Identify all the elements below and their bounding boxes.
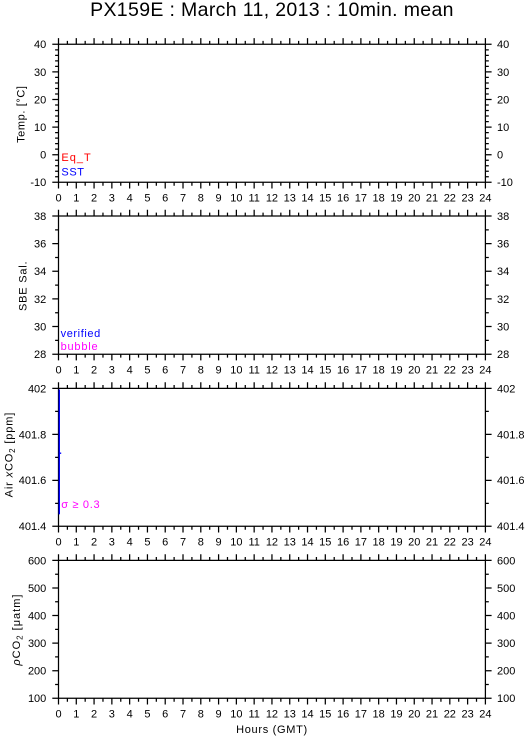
- svg-text:401.4: 401.4: [19, 521, 47, 533]
- svg-text:bubble: bubble: [61, 341, 99, 353]
- svg-text:401.8: 401.8: [19, 429, 47, 441]
- svg-text:11: 11: [248, 537, 259, 549]
- svg-text:28: 28: [497, 349, 509, 361]
- svg-text:2: 2: [91, 537, 97, 549]
- svg-text:10: 10: [230, 709, 242, 721]
- svg-text:5: 5: [144, 365, 150, 377]
- svg-text:36: 36: [34, 239, 46, 251]
- svg-text:8: 8: [198, 709, 204, 721]
- svg-text:11: 11: [248, 709, 259, 721]
- svg-text:36: 36: [497, 239, 509, 251]
- svg-text:19: 19: [390, 193, 402, 205]
- svg-text:6: 6: [162, 537, 168, 549]
- svg-text:18: 18: [373, 537, 385, 549]
- svg-text:19: 19: [390, 537, 402, 549]
- svg-text:21: 21: [426, 709, 438, 721]
- svg-text:Air xCO2 [ppm]: Air xCO2 [ppm]: [3, 412, 17, 497]
- svg-text:100: 100: [28, 693, 46, 705]
- svg-text:6: 6: [162, 365, 168, 377]
- svg-text:Eq_T: Eq_T: [61, 152, 91, 164]
- svg-text:3: 3: [109, 709, 115, 721]
- svg-text:7: 7: [180, 709, 186, 721]
- svg-text:23: 23: [461, 537, 473, 549]
- svg-text:300: 300: [497, 638, 515, 650]
- svg-text:20: 20: [408, 365, 420, 377]
- svg-text:7: 7: [180, 537, 186, 549]
- svg-text:7: 7: [180, 365, 186, 377]
- svg-text:12: 12: [266, 365, 278, 377]
- svg-text:7: 7: [180, 193, 186, 205]
- svg-text:401.8: 401.8: [497, 429, 525, 441]
- svg-text:24: 24: [479, 709, 491, 721]
- svg-text:10: 10: [230, 193, 242, 205]
- svg-text:5: 5: [144, 537, 150, 549]
- svg-text:20: 20: [408, 193, 420, 205]
- svg-text:9: 9: [216, 537, 222, 549]
- svg-text:4: 4: [127, 709, 133, 721]
- svg-text:14: 14: [301, 537, 313, 549]
- svg-text:19: 19: [390, 709, 402, 721]
- svg-text:200: 200: [497, 666, 515, 678]
- svg-text:21: 21: [426, 193, 438, 205]
- svg-text:400: 400: [497, 610, 515, 622]
- svg-text:10: 10: [497, 122, 509, 134]
- svg-text:16: 16: [337, 537, 349, 549]
- svg-text:9: 9: [216, 193, 222, 205]
- svg-text:400: 400: [28, 610, 46, 622]
- svg-text:SST: SST: [61, 167, 84, 179]
- svg-text:4: 4: [127, 365, 133, 377]
- svg-text:0: 0: [40, 150, 46, 162]
- svg-text:500: 500: [28, 583, 46, 595]
- svg-text:30: 30: [497, 321, 509, 333]
- svg-text:8: 8: [198, 537, 204, 549]
- svg-text:20: 20: [497, 94, 509, 106]
- svg-text:12: 12: [266, 193, 278, 205]
- svg-text:-10: -10: [497, 177, 513, 189]
- svg-text:14: 14: [301, 193, 313, 205]
- svg-text:SBE Sal.: SBE Sal.: [17, 261, 29, 311]
- svg-text:2: 2: [91, 709, 97, 721]
- svg-text:8: 8: [198, 193, 204, 205]
- svg-text:0: 0: [55, 365, 61, 377]
- svg-text:0: 0: [55, 709, 61, 721]
- svg-text:5: 5: [144, 709, 150, 721]
- svg-text:1: 1: [73, 709, 79, 721]
- svg-text:22: 22: [444, 365, 456, 377]
- svg-text:15: 15: [319, 709, 331, 721]
- svg-text:16: 16: [337, 193, 349, 205]
- svg-text:PX159E : March 11, 2013 : 10mi: PX159E : March 11, 2013 : 10min. mean: [90, 0, 454, 21]
- svg-text:23: 23: [461, 193, 473, 205]
- svg-text:10: 10: [230, 537, 242, 549]
- svg-text:402: 402: [497, 383, 515, 395]
- svg-text:14: 14: [301, 709, 313, 721]
- svg-text:13: 13: [284, 709, 296, 721]
- svg-text:30: 30: [497, 67, 509, 79]
- svg-text:18: 18: [373, 193, 385, 205]
- svg-text:17: 17: [355, 365, 367, 377]
- svg-text:38: 38: [34, 211, 46, 223]
- svg-text:4: 4: [127, 537, 133, 549]
- svg-text:10: 10: [34, 122, 46, 134]
- svg-text:9: 9: [216, 709, 222, 721]
- svg-text:3: 3: [109, 193, 115, 205]
- svg-text:32: 32: [497, 294, 509, 306]
- svg-text:14: 14: [301, 365, 313, 377]
- svg-text:-10: -10: [30, 177, 46, 189]
- svg-text:32: 32: [34, 294, 46, 306]
- svg-text:5: 5: [144, 193, 150, 205]
- svg-text:21: 21: [426, 365, 438, 377]
- svg-text:0: 0: [55, 193, 61, 205]
- svg-text:17: 17: [355, 709, 367, 721]
- svg-text:30: 30: [34, 321, 46, 333]
- svg-text:16: 16: [337, 709, 349, 721]
- svg-text:38: 38: [497, 211, 509, 223]
- svg-text:100: 100: [497, 693, 515, 705]
- svg-text:24: 24: [479, 193, 491, 205]
- svg-text:11: 11: [248, 365, 259, 377]
- svg-text:24: 24: [479, 537, 491, 549]
- svg-text:17: 17: [355, 537, 367, 549]
- svg-text:Hours (GMT): Hours (GMT): [236, 724, 308, 736]
- svg-text:13: 13: [284, 537, 296, 549]
- svg-text:2: 2: [91, 193, 97, 205]
- svg-text:1: 1: [73, 193, 79, 205]
- svg-text:ρCO2 [μatm]: ρCO2 [μatm]: [11, 594, 25, 667]
- svg-text:verified: verified: [61, 328, 101, 340]
- svg-text:σ ≥ 0.3: σ ≥ 0.3: [61, 499, 100, 511]
- svg-text:22: 22: [444, 709, 456, 721]
- svg-text:401.4: 401.4: [497, 521, 525, 533]
- svg-text:13: 13: [284, 365, 296, 377]
- svg-text:23: 23: [461, 365, 473, 377]
- svg-text:300: 300: [28, 638, 46, 650]
- svg-text:402: 402: [28, 383, 46, 395]
- svg-text:1: 1: [73, 537, 79, 549]
- svg-text:17: 17: [355, 193, 367, 205]
- svg-text:200: 200: [28, 666, 46, 678]
- svg-text:401.6: 401.6: [19, 475, 47, 487]
- svg-text:40: 40: [34, 39, 46, 51]
- svg-text:20: 20: [34, 94, 46, 106]
- svg-text:34: 34: [497, 266, 509, 278]
- svg-text:1: 1: [73, 365, 79, 377]
- svg-text:0: 0: [55, 537, 61, 549]
- svg-text:18: 18: [373, 709, 385, 721]
- svg-text:4: 4: [127, 193, 133, 205]
- svg-text:9: 9: [216, 365, 222, 377]
- svg-text:11: 11: [248, 193, 259, 205]
- svg-text:3: 3: [109, 537, 115, 549]
- svg-text:23: 23: [461, 709, 473, 721]
- svg-text:30: 30: [34, 67, 46, 79]
- svg-text:21: 21: [426, 537, 438, 549]
- svg-text:401.6: 401.6: [497, 475, 525, 487]
- svg-text:40: 40: [497, 39, 509, 51]
- svg-text:6: 6: [162, 193, 168, 205]
- svg-text:34: 34: [34, 266, 46, 278]
- svg-text:20: 20: [408, 537, 420, 549]
- svg-text:12: 12: [266, 537, 278, 549]
- svg-text:15: 15: [319, 365, 331, 377]
- svg-text:22: 22: [444, 193, 456, 205]
- svg-text:12: 12: [266, 709, 278, 721]
- svg-text:16: 16: [337, 365, 349, 377]
- svg-text:0: 0: [497, 150, 503, 162]
- svg-text:6: 6: [162, 709, 168, 721]
- svg-text:3: 3: [109, 365, 115, 377]
- svg-text:13: 13: [284, 193, 296, 205]
- svg-text:24: 24: [479, 365, 491, 377]
- svg-text:22: 22: [444, 537, 456, 549]
- svg-text:28: 28: [34, 349, 46, 361]
- svg-text:15: 15: [319, 537, 331, 549]
- svg-text:20: 20: [408, 709, 420, 721]
- svg-text:8: 8: [198, 365, 204, 377]
- svg-text:500: 500: [497, 583, 515, 595]
- svg-text:19: 19: [390, 365, 402, 377]
- svg-text:Temp. [°C]: Temp. [°C]: [15, 85, 27, 142]
- svg-text:10: 10: [230, 365, 242, 377]
- svg-text:600: 600: [497, 555, 515, 567]
- svg-text:2: 2: [91, 365, 97, 377]
- svg-text:600: 600: [28, 555, 46, 567]
- svg-text:15: 15: [319, 193, 331, 205]
- svg-text:18: 18: [373, 365, 385, 377]
